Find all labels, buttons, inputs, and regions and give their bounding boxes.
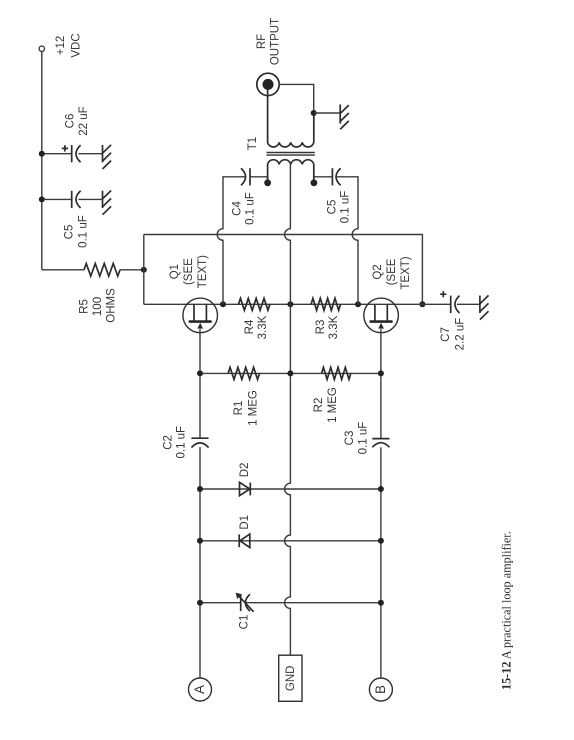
svg-text:C6: C6 (65, 114, 77, 129)
node C4 / T1 primary end (264, 179, 271, 186)
svg-text:C5: C5 (63, 225, 75, 240)
svg-text:100: 100 (92, 297, 104, 316)
svg-text:OHMS: OHMS (106, 288, 118, 323)
node C5 / T1 primary end (311, 179, 318, 186)
svg-text:(SEE: (SEE (183, 258, 195, 285)
wire C1 row (200, 602, 381, 604)
resistor R3 3.3K (311, 298, 340, 339)
wire feed line (right side, to Q2 drain) (144, 235, 423, 305)
svg-text:C2: C2 (162, 435, 174, 450)
svg-text:3.3K: 3.3K (328, 315, 340, 339)
node C1 / gate A (197, 600, 203, 606)
svg-text:GND: GND (285, 666, 297, 692)
node R1R2 row / gate B (378, 370, 384, 376)
svg-text:D1: D1 (239, 515, 251, 530)
wire drain line (vertical through Q1 and Q2) (144, 303, 451, 305)
caption 15-12 A practical loop amplifier. (500, 531, 514, 690)
node R1R2 row / ground line (287, 370, 293, 376)
transistor Q1 (SEE TEXT) (169, 255, 218, 333)
svg-text:R3: R3 (315, 320, 327, 335)
svg-text:C1: C1 (239, 615, 251, 630)
svg-text:R2: R2 (313, 398, 325, 413)
svg-text:R5: R5 (79, 299, 91, 314)
wire D1 row (200, 540, 381, 542)
connector RF OUTPUT (256, 18, 282, 96)
capacitor C5 0.1 uF (supply bypass) (42, 191, 103, 248)
svg-text:0.1 uF: 0.1 uF (176, 426, 188, 459)
wire gate line B (terminal B to Q2 gate) (380, 329, 382, 678)
wire bias row (R1 / R2) (200, 372, 381, 374)
svg-text:Q2: Q2 (372, 264, 384, 279)
svg-text:0.1 uF: 0.1 uF (77, 215, 89, 248)
svg-text:3.3K: 3.3K (257, 315, 269, 339)
node C5 on rail (39, 196, 45, 202)
node R1R2 row / gate A (197, 370, 203, 376)
svg-text:0.1 uF: 0.1 uF (245, 192, 257, 225)
svg-text:15-12 A practical loop amplif: 15-12 A practical loop amplifier. (500, 531, 514, 690)
svg-text:C5: C5 (327, 200, 339, 215)
capacitor C4 0.1 uF (231, 168, 267, 225)
svg-text:R4: R4 (244, 319, 256, 334)
resistor R4 3.3K (239, 298, 270, 339)
terminal B (369, 678, 392, 701)
svg-text:VDC: VDC (71, 33, 83, 57)
chassis ground at C6 (103, 145, 112, 169)
svg-text:T1: T1 (247, 137, 259, 150)
node drain line / C4 branch (220, 301, 226, 307)
svg-text:D2: D2 (239, 463, 251, 478)
capacitor C6 22 uF (42, 106, 103, 162)
node D2 / gate B (378, 486, 384, 492)
wire D2 row (200, 488, 381, 490)
transformer T1 secondary winding (247, 90, 314, 151)
svg-text:RF: RF (256, 34, 268, 49)
capacitor C2 0.1 uF (162, 426, 208, 459)
capacitor C5 0.1 uF (coupling) (314, 168, 352, 223)
node drain line / ground line (287, 301, 293, 307)
svg-text:TEXT): TEXT) (400, 256, 412, 289)
svg-text:0.1 uF: 0.1 uF (340, 191, 352, 224)
node D2 / gate A (197, 486, 203, 492)
svg-text:(SEE: (SEE (386, 258, 398, 285)
wire R5 junction to Q1 drain side and feed line (143, 235, 145, 305)
node feed to drain line (C7 junction) (419, 301, 425, 307)
svg-text:1 MEG: 1 MEG (327, 387, 339, 423)
svg-text:A: A (192, 685, 207, 694)
node D1 / gate A (197, 538, 203, 544)
node C1 / gate B (378, 600, 384, 606)
diode D2 (239, 463, 251, 496)
wire RF connector to ground stub (279, 84, 314, 113)
wire +12V supply rail (41, 52, 43, 270)
capacitor C7 2.2 uF (440, 291, 480, 350)
wire C4 branch (drain line to C4) (217, 177, 245, 305)
svg-text:R1: R1 (233, 401, 245, 416)
svg-text:22 uF: 22 uF (78, 106, 90, 135)
transistor Q2 (SEE TEXT) (364, 256, 412, 332)
resistor R5 100 OHMS (42, 264, 144, 323)
node drain line / C5 branch (355, 301, 361, 307)
terminal +12 VDC (39, 33, 82, 57)
svg-text:C4: C4 (231, 201, 243, 216)
chassis ground at RF output (340, 104, 349, 129)
wire C5 branch (drain line to C5) (336, 177, 358, 305)
chassis ground at C5 (103, 191, 112, 215)
node D1 / gate B (378, 538, 384, 544)
wire ground line (GND to T1 center tap) (285, 164, 291, 655)
svg-text:TEXT): TEXT) (197, 255, 209, 288)
svg-text:+12: +12 (55, 36, 67, 56)
svg-text:1 MEG: 1 MEG (248, 390, 260, 426)
node RF ground stub / secondary (311, 110, 317, 116)
resistor R2 1 MEG (313, 367, 351, 422)
svg-text:0.1 uF: 0.1 uF (358, 422, 370, 455)
svg-text:C7: C7 (440, 327, 452, 342)
chassis ground at C7 (480, 295, 489, 319)
svg-text:2.2 uF: 2.2 uF (455, 318, 467, 351)
transformer T1 core (267, 153, 315, 156)
node C6 on rail (39, 151, 45, 157)
resistor R1 1 MEG (228, 367, 259, 425)
variable capacitor C1 (236, 593, 254, 630)
node R5 output junction (141, 267, 147, 273)
wire gate line A (terminal A to Q1 gate) (199, 329, 201, 678)
diode D1 (239, 515, 251, 548)
capacitor C3 0.1 uF (344, 422, 390, 455)
terminal A (189, 678, 212, 701)
svg-text:OUTPUT: OUTPUT (270, 18, 282, 65)
terminal GND box (279, 655, 302, 701)
svg-text:Q1: Q1 (169, 264, 181, 279)
svg-text:B: B (373, 685, 388, 694)
wire stub down to ground (314, 112, 341, 114)
svg-text:C3: C3 (344, 431, 356, 446)
transformer T1 primary winding (268, 160, 314, 183)
